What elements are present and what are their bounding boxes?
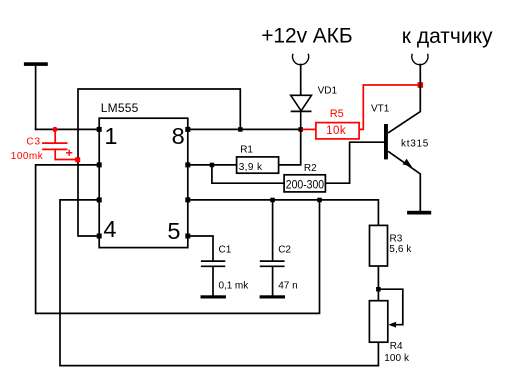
ground GND2 (emitter) [407, 211, 431, 215]
wire: pin 5 to C1 [188, 236, 213, 261]
svg-text:4: 4 [103, 216, 116, 242]
junction at top rail drop [238, 127, 243, 132]
svg-text:10k: 10k [326, 125, 346, 137]
svg-text:5,6 k: 5,6 k [389, 244, 412, 255]
ground GND4 (C2) [260, 295, 285, 298]
svg-text:R3: R3 [390, 233, 403, 244]
svg-text:1: 1 [104, 123, 117, 149]
junction C3 bottom (red square) [75, 157, 80, 162]
transistor VT1 kt315 [384, 64, 420, 211]
resistor R2 box [284, 175, 325, 192]
base bar [384, 124, 388, 159]
svg-text:100 k: 100 k [384, 353, 410, 364]
wire: R5 right up over to collector (red) [359, 85, 420, 129]
wire: pin 6-right rail to R3 [188, 200, 379, 226]
resistor R5 (red) box [316, 123, 359, 139]
IC pin squares right [185, 127, 190, 239]
R4 wiper arrow [388, 322, 396, 328]
junction dot C3 top (red) [52, 127, 57, 132]
junction at diode/R5 node [299, 127, 304, 132]
wire: drop to R2 [212, 165, 284, 183]
svg-text:VT1: VT1 [371, 103, 390, 114]
junction at (211.9,164.9) [210, 163, 215, 168]
svg-text:C2: C2 [278, 244, 291, 255]
emitter wire [388, 151, 420, 211]
wire: R2 right to VT1 base [325, 142, 384, 183]
svg-text:C3: C3 [26, 137, 40, 148]
junction at C2 [270, 198, 275, 203]
IC U1 LM555 body [99, 118, 188, 247]
collector wire from terminal [388, 64, 420, 133]
terminal к датчику [412, 54, 428, 65]
resistor R3 box [370, 225, 388, 266]
resistor R1 box [237, 157, 279, 173]
wire: R3 bottom to R4 top [377, 266, 379, 301]
svg-text:LM555: LM555 [101, 101, 139, 115]
wire: node to R5 (red) [302, 128, 316, 130]
wire: pin 3-left loop, bottom rail B, riser to R4 bottom [60, 200, 378, 366]
capacitor C3 (red electrolytic) [42, 129, 78, 160]
wire: pin 2-left loop, bottom rail A, riser to node (319.5,200) [36, 165, 320, 314]
potentiometer R4 box [369, 301, 387, 343]
C3 plus sign [66, 150, 72, 156]
wire: pin 7-right to R1 [188, 164, 237, 166]
wire: pin 8 to diode node [188, 128, 301, 130]
wire: C2 drop [272, 200, 274, 261]
capacitor C2 [260, 261, 285, 296]
svg-text:kt315: kt315 [401, 139, 429, 150]
wire: pin 4 stub [78, 235, 99, 237]
wire: pin 4 riser / top rail y=89 / drop at x=240 [78, 89, 240, 237]
svg-text:к датчику: к датчику [402, 25, 493, 48]
svg-text:100mk: 100mk [11, 151, 44, 162]
emitter arrow [403, 159, 412, 167]
svg-text:R4: R4 [390, 341, 403, 352]
svg-text:3,9 k: 3,9 k [239, 162, 263, 173]
diode VD1 [291, 95, 312, 129]
svg-text:R5: R5 [330, 108, 344, 120]
wire: R1 right up to diode node [279, 129, 301, 165]
svg-text:VD1: VD1 [318, 85, 338, 96]
svg-text:8: 8 [172, 123, 185, 149]
junction above R4 [376, 287, 381, 292]
svg-text:200-300: 200-300 [286, 179, 324, 191]
svg-text:+12v АКБ: +12v АКБ [261, 24, 352, 47]
ground GND1 (top-left) [24, 62, 48, 130]
ground GND3 (C1) [201, 295, 226, 298]
junction red at collector line [418, 82, 424, 88]
IC pin squares left [97, 127, 102, 239]
svg-text:C1: C1 [219, 244, 232, 255]
wire: terminal to diode [300, 64, 302, 96]
capacitor C1 [201, 261, 225, 296]
terminal +12v АКБ [293, 54, 309, 65]
svg-text:5: 5 [167, 218, 180, 244]
svg-text:R2: R2 [304, 163, 317, 174]
wire: R4 wiper loop [378, 289, 402, 325]
svg-text:R1: R1 [240, 145, 253, 156]
svg-text:0,1 mk: 0,1 mk [219, 280, 250, 291]
junction at riser x=319.5 [317, 198, 322, 203]
wire: GND1 to pin 1 [35, 128, 99, 130]
svg-text:47 n: 47 n [278, 280, 297, 291]
